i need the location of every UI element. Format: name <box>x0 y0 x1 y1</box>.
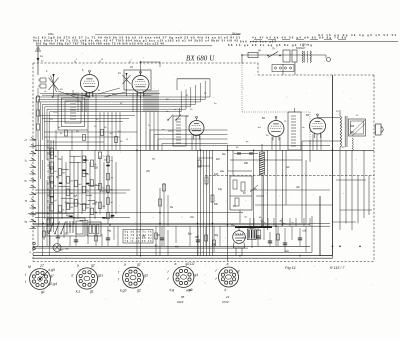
svg-text:g3: g3 <box>144 274 148 278</box>
resistor/capacitor block mid-left <box>57 150 59 224</box>
IF stage step wires <box>150 129 228 131</box>
push-button unit SK2 <box>47 218 85 236</box>
svg-text:a: a <box>77 264 79 268</box>
svg-text:g2: g2 <box>137 289 141 293</box>
HT supply rail <box>332 75 334 256</box>
tube socket S2 UCH21 <box>76 268 97 289</box>
voltage table <box>123 230 153 244</box>
tube socket S3 UF21 <box>123 267 144 288</box>
tuning capacitor C1b <box>123 75 131 84</box>
svg-text:k: k <box>225 288 227 292</box>
svg-text:g2,D2: g2,D2 <box>186 262 195 266</box>
svg-text:a: a <box>124 263 126 267</box>
svg-text:g: g <box>238 269 240 273</box>
svg-text:88: 88 <box>181 295 185 299</box>
antenna coil L1/L2 shield <box>58 95 88 130</box>
svg-text:k,g5: k,g5 <box>49 268 56 272</box>
svg-text:k,g: k,g <box>170 288 175 292</box>
tube lead wires <box>191 136 193 151</box>
dial lamp <box>53 244 61 252</box>
coupling wires below bundle <box>40 115 135 117</box>
chassis dashed border <box>33 62 242 64</box>
tube socket S1 UCH21 <box>30 269 51 290</box>
tube V2 UCH21 oscillator <box>132 76 149 93</box>
aerial filter components <box>37 96 40 102</box>
tube V4 UBL21 detector/AF <box>268 121 284 137</box>
svg-text:d4 1b eg dg 4k 4g g0 e5 04 54: d4 1b eg dg 4k 4g g0 e5 04 54 <box>318 33 397 37</box>
svg-text:a: a <box>227 262 229 266</box>
svg-text:831: 831 <box>296 47 301 50</box>
svg-text:g2,g4: g2,g4 <box>49 282 58 286</box>
svg-text:8f5 6g 4k0 28g 5b7 767 76g b00: 8f5 6g 4k0 28g 5b7 767 76g b00 f86 ebb 7… <box>36 42 164 46</box>
RF band-switch wiring bundle <box>36 79 210 151</box>
bottom band components <box>37 226 39 246</box>
tube socket S4 UBL21 <box>173 267 194 288</box>
aerial input pads <box>40 78 46 82</box>
svg-text:g7: g7 <box>50 274 54 278</box>
output transformer T4 <box>340 116 342 119</box>
svg-text:k,g3: k,g3 <box>120 289 127 293</box>
svg-text:d: d <box>71 274 73 278</box>
svg-text:a: a <box>175 262 177 266</box>
svg-text:7ff: 7ff <box>152 159 155 161</box>
oscillator coil box S2 <box>124 70 151 90</box>
svg-text:g1s: g1s <box>98 274 104 278</box>
detector/AVC block <box>230 176 252 210</box>
svg-text:M: M <box>28 265 31 269</box>
svg-text:g1: g1 <box>195 273 199 277</box>
loudspeaker LS <box>376 124 382 135</box>
IF transformer S3/S4 <box>173 116 186 146</box>
switch mechanical link (dotted) <box>241 63 243 112</box>
svg-text:g1: g1 <box>41 290 45 294</box>
tube socket S5 UY21 <box>219 267 239 287</box>
svg-text:0119: 0119 <box>177 300 184 304</box>
rectifier V6 UY21 <box>233 231 246 244</box>
svg-text:R 115 / 7: R 115 / 7 <box>330 266 345 270</box>
wave-band switch SK1 ladder <box>30 139 37 141</box>
antenna terminal A <box>37 47 39 75</box>
centre vertical wires <box>136 96 138 256</box>
svg-text:k,s: k,s <box>76 290 81 294</box>
svg-text:g2: g2 <box>91 264 95 268</box>
tube V1 UCH21 mixer <box>81 75 99 93</box>
mains input & dropper <box>242 54 326 56</box>
svg-text:BX 680 U: BX 680 U <box>186 55 215 63</box>
supply & signal buses <box>35 145 330 147</box>
tube V3 UF21 IF amplifier <box>189 121 204 136</box>
tuning capacitor C1a <box>49 78 59 91</box>
smoothing choke/resistor block <box>247 229 256 240</box>
filter choke S9 hatched <box>260 152 265 175</box>
wire junctions <box>136 150 138 152</box>
svg-text:gl,D1: gl,D1 <box>186 288 193 292</box>
svg-text:79 fk c3 55 26: 79 fk c3 55 26 <box>125 239 153 243</box>
svg-text:3k17: 3k17 <box>300 47 306 50</box>
IF transformer S5/S6 <box>288 112 301 150</box>
svg-text:0719: 0719 <box>222 300 229 304</box>
right-hand vertical wires <box>253 150 255 226</box>
svg-text:8k6 e4d 3ce a27: 8k6 e4d 3ce a27 <box>240 40 277 44</box>
svg-text:g1: g1 <box>137 263 141 267</box>
svg-text:B48: B48 <box>350 126 355 128</box>
svg-text:f3k1agg: f3k1agg <box>232 32 241 35</box>
svg-text:Fig 11: Fig 11 <box>285 265 296 270</box>
svg-text:g1: g1 <box>90 290 94 294</box>
svg-text:21: 21 <box>225 295 230 299</box>
tube V5 UL21 output <box>310 118 326 134</box>
